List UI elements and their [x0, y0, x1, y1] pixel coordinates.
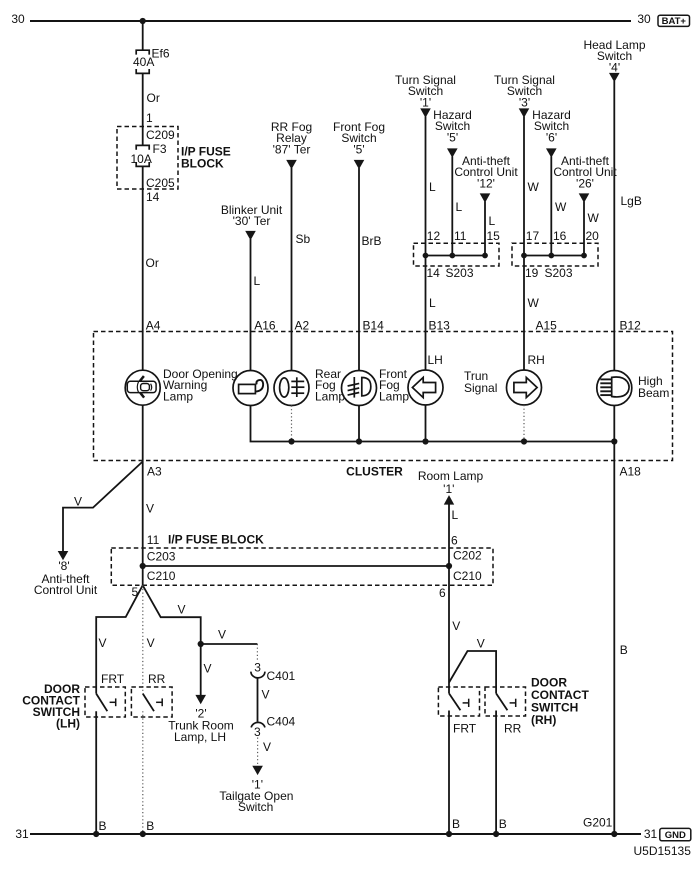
arrow from RR fog relay: [286, 160, 297, 169]
arrow from anti-theft control unit 26: [579, 193, 590, 202]
junction dot high beam on bus: [611, 438, 617, 444]
svg-text:3: 3: [254, 661, 261, 675]
indicator U1 door opening warning lamp: [125, 370, 160, 405]
svg-text:'6': '6': [546, 130, 557, 144]
junction dot front fog on bus: [356, 438, 362, 444]
wire to RR LH switch (dotted): [142, 585, 144, 693]
switch FRT LH: [96, 694, 116, 712]
junction dot on rail at battery feed: [140, 18, 146, 24]
junction dot FRT RH ground: [446, 831, 452, 837]
svg-text:C210: C210: [147, 569, 176, 583]
switch box FRT LH: [85, 687, 125, 717]
svg-text:31: 31: [644, 827, 658, 841]
junction dot pin 12: [423, 253, 429, 259]
svg-text:'5': '5': [447, 130, 458, 144]
svg-text:C404: C404: [267, 714, 296, 728]
wire door lamp A3 down to fuse block: [142, 405, 144, 585]
arrow from hazard switch 6: [546, 148, 557, 157]
svg-text:Control Unit: Control Unit: [34, 583, 98, 597]
svg-text:BLOCK: BLOCK: [181, 157, 224, 171]
label RR Fog Relay '87' Ter: [271, 120, 312, 156]
indicator U5 turn signal LH: [408, 370, 443, 405]
wire to trunk room lamp: [200, 644, 202, 695]
svg-text:30: 30: [637, 12, 651, 26]
connector C401 half: [251, 672, 265, 678]
connector C404 half: [251, 722, 265, 727]
label '1' Tailgate Open Switch: [219, 777, 293, 814]
svg-text:V: V: [218, 628, 226, 642]
wire rail to fuse Ef6: [142, 21, 144, 50]
ground point G201: [611, 831, 617, 837]
svg-text:C401: C401: [267, 669, 296, 683]
svg-text:'87' Ter: '87' Ter: [273, 142, 311, 156]
wire branch to anti-theft '8': [63, 462, 143, 552]
switch box FRT RH: [438, 687, 479, 716]
wire front fog lamp to bus: [358, 406, 360, 442]
svg-text:B14: B14: [363, 319, 385, 333]
wire bus 30 top rail: [30, 20, 631, 22]
svg-text:12: 12: [427, 229, 441, 243]
indicator U3 rear fog lamp: [274, 371, 309, 406]
label DOOR CONTACT SWITCH (RH): [531, 676, 589, 728]
wire trunk branch to tailgate connector: [201, 643, 258, 645]
label Rear Fog Lamp: [315, 367, 345, 403]
svg-text:F3: F3: [153, 142, 167, 156]
svg-text:W: W: [588, 211, 600, 225]
svg-text:B13: B13: [429, 319, 451, 333]
wire RR RH to ground rail: [495, 711, 497, 835]
svg-text:6: 6: [439, 586, 446, 600]
arrow from turn signal switch 1: [420, 108, 431, 117]
svg-text:A16: A16: [254, 319, 276, 333]
svg-text:Switch: Switch: [238, 800, 273, 814]
label '2' Trunk Room Lamp, LH: [168, 707, 234, 745]
svg-text:FRT: FRT: [101, 672, 125, 686]
arrow from front fog switch: [354, 160, 365, 169]
wire high beam through pin A18 to ground rail: [613, 406, 615, 835]
junction dot C202: [446, 563, 452, 569]
BAT+ terminal box: [658, 15, 690, 27]
junction dot pin 11: [449, 253, 455, 259]
wire anti-theft 12 to splice S203: [484, 202, 486, 256]
wire C404 to tailgate switch (dotted): [257, 738, 259, 767]
GND terminal box: [660, 828, 691, 841]
svg-text:15: 15: [487, 229, 501, 243]
arrow from head lamp switch: [609, 73, 620, 82]
svg-text:RR: RR: [504, 722, 522, 736]
svg-text:B: B: [99, 819, 107, 833]
label Blinker Unit '30' Ter: [221, 203, 283, 228]
svg-text:W: W: [528, 180, 540, 194]
wire front fog switch to cluster pin B14: [358, 168, 360, 371]
svg-text:14: 14: [146, 190, 160, 204]
svg-text:(RH): (RH): [531, 713, 556, 727]
svg-text:G201: G201: [583, 816, 613, 830]
label High Beam: [638, 374, 669, 400]
label Trun Signal: [464, 369, 497, 395]
svg-text:'26': '26': [576, 176, 594, 190]
arrow from turn signal switch 3: [519, 108, 530, 117]
junction dot turn RH on bus: [521, 438, 527, 444]
svg-text:V: V: [147, 636, 155, 650]
junction dot pin 20: [581, 253, 587, 259]
wire RR fog relay to cluster pin A2: [291, 168, 293, 371]
svg-text:A3: A3: [147, 465, 162, 479]
junction dot pin 17: [521, 253, 527, 259]
wire turn signal 3 to cluster pin A15: [523, 117, 525, 371]
wire corner down to C401 (dotted): [256, 644, 258, 662]
label 14 S203: [427, 266, 474, 280]
wire FRT RH to ground rail: [448, 711, 450, 835]
svg-text:B: B: [620, 643, 628, 657]
wire fuse block to cluster pin A4: [142, 166, 144, 370]
label 19 S203: [525, 266, 573, 280]
svg-text:'30' Ter: '30' Ter: [233, 214, 271, 228]
junction dot C203: [140, 563, 146, 569]
junction dot RR LH ground: [140, 831, 146, 837]
svg-text:40A: 40A: [133, 55, 154, 69]
svg-text:C202: C202: [453, 549, 482, 563]
junction dot RR RH ground: [493, 831, 499, 837]
svg-text:Lamp: Lamp: [379, 389, 409, 403]
indicator U7 high beam: [597, 371, 632, 406]
wire fuse Ef6 to fuse block: [142, 73, 144, 145]
svg-text:V: V: [263, 740, 271, 754]
wire rear fog lamp to bus (dotted): [291, 406, 293, 442]
splice box S203 left: [414, 243, 500, 266]
wire RR LH to ground rail (dotted): [142, 711, 144, 834]
svg-text:LH: LH: [428, 353, 443, 367]
svg-text:L: L: [489, 214, 496, 228]
svg-text:11: 11: [454, 229, 467, 243]
svg-text:A18: A18: [620, 465, 642, 479]
svg-text:L: L: [429, 180, 436, 194]
wire turn signal 1 to cluster pin B13: [425, 117, 427, 371]
svg-text:19: 19: [525, 266, 539, 280]
wire interior lamp to cluster ground bus: [251, 406, 615, 442]
svg-text:Or: Or: [146, 256, 159, 270]
svg-text:'4': '4': [609, 60, 620, 74]
junction dot pin 16: [548, 253, 554, 259]
junction dot turn LH on bus: [422, 438, 428, 444]
wire bus 31 ground rail: [30, 833, 641, 835]
svg-text:V: V: [146, 502, 154, 516]
label I/P FUSE BLOCK (upper): [181, 145, 231, 171]
svg-text:W: W: [555, 200, 567, 214]
label Front Fog Switch '5': [333, 120, 385, 156]
svg-text:6: 6: [451, 534, 458, 548]
cluster box: [94, 332, 673, 461]
switch box RR RH: [485, 687, 526, 716]
label Anti-theft Control Unit '26': [553, 154, 617, 190]
svg-text:B: B: [499, 817, 507, 831]
svg-text:V: V: [204, 662, 212, 676]
wire hazard switch 6 to splice S203: [550, 157, 552, 256]
svg-text:L: L: [429, 296, 436, 310]
svg-text:C209: C209: [146, 128, 175, 142]
label Front Fog Lamp: [379, 367, 409, 403]
svg-text:16: 16: [553, 229, 567, 243]
arrow to trunk room lamp: [195, 695, 206, 704]
svg-text:'8': '8': [58, 559, 69, 573]
junction dot pin 15: [482, 253, 488, 259]
fuse Ef6 40A: [136, 50, 149, 73]
junction dot FRT LH ground: [93, 831, 99, 837]
svg-text:'12': '12': [477, 176, 495, 190]
arrow to anti-theft control unit '8': [58, 551, 69, 560]
arrow from anti-theft control unit 12: [480, 193, 491, 202]
svg-text:BAT+: BAT+: [662, 16, 687, 27]
svg-text:A2: A2: [295, 319, 310, 333]
svg-text:Or: Or: [147, 91, 160, 105]
svg-text:C203: C203: [147, 550, 176, 564]
svg-text:'1': '1': [420, 95, 431, 109]
svg-text:V: V: [74, 495, 82, 509]
label Head Lamp Switch '4': [583, 38, 645, 74]
svg-text:1: 1: [146, 111, 153, 125]
svg-text:U5D15135: U5D15135: [634, 844, 692, 858]
splice bus S203 left: [426, 255, 486, 257]
svg-text:14: 14: [427, 266, 441, 280]
wire turn RH to bus (dotted): [523, 405, 525, 442]
svg-text:GND: GND: [665, 830, 686, 841]
arrow from blinker unit: [245, 231, 256, 240]
svg-text:C210: C210: [453, 569, 482, 583]
arrow to room lamp (up): [444, 495, 454, 505]
svg-text:L: L: [254, 274, 261, 288]
svg-text:V: V: [178, 603, 186, 617]
svg-text:B12: B12: [620, 319, 642, 333]
splice bus S203 right: [524, 255, 584, 257]
arrow from hazard switch 5: [447, 148, 458, 157]
wire branch to RR RH switch: [449, 651, 496, 693]
label DOOR CONTACT SWITCH (LH): [22, 682, 80, 731]
svg-text:Lamp: Lamp: [163, 389, 193, 403]
svg-text:10A: 10A: [131, 152, 152, 166]
wire blinker unit to cluster pin A16: [250, 239, 252, 371]
wire hazard switch 5 to splice S203: [451, 157, 453, 256]
splice box S203 right: [512, 243, 598, 266]
svg-text:B: B: [146, 819, 154, 833]
svg-text:A4: A4: [146, 319, 161, 333]
svg-text:20: 20: [586, 229, 600, 243]
wire room lamp to door contact FRT RH: [448, 504, 450, 693]
svg-text:S203: S203: [545, 266, 573, 280]
svg-text:C205: C205: [146, 176, 175, 190]
I/P fuse block connector box (lower): [111, 548, 493, 585]
switch box RR LH: [131, 687, 172, 717]
svg-text:'3': '3': [519, 95, 530, 109]
svg-text:30: 30: [11, 12, 25, 26]
label '8' Anti-theft Control Unit: [34, 559, 98, 597]
svg-text:17: 17: [526, 229, 540, 243]
svg-text:A15: A15: [536, 319, 558, 333]
svg-text:Signal: Signal: [464, 381, 497, 395]
label Turn Signal Switch '3': [494, 73, 555, 109]
svg-text:FRT: FRT: [453, 722, 477, 736]
svg-text:V: V: [477, 637, 485, 651]
svg-text:B: B: [452, 817, 460, 831]
svg-text:S203: S203: [446, 266, 474, 280]
svg-text:L: L: [456, 200, 463, 214]
svg-text:V: V: [262, 688, 270, 702]
switch RR RH: [496, 693, 516, 710]
label Hazard Switch '6': [532, 108, 571, 144]
switch RR LH: [143, 694, 162, 712]
indicator U6 turn signal RH: [507, 370, 542, 405]
wire branch to FRT LH switch: [96, 585, 143, 693]
svg-text:RH: RH: [528, 353, 545, 367]
label Door Opening Warning Lamp: [163, 367, 238, 403]
junction dot trunk branch: [198, 641, 204, 647]
svg-text:I/P FUSE BLOCK: I/P FUSE BLOCK: [168, 533, 264, 547]
svg-text:(LH): (LH): [56, 717, 80, 731]
arrow to tailgate open switch: [252, 766, 263, 775]
svg-text:BrB: BrB: [362, 234, 382, 248]
junction dot rear fog on bus: [288, 438, 294, 444]
svg-text:Beam: Beam: [638, 386, 669, 400]
label Room Lamp '1': [418, 469, 484, 496]
svg-text:3: 3: [254, 725, 261, 739]
svg-text:LgB: LgB: [621, 194, 642, 208]
svg-text:Room Lamp: Room Lamp: [418, 469, 484, 483]
wire link C203 to C202: [143, 565, 449, 567]
svg-text:11: 11: [147, 533, 160, 547]
svg-text:Sb: Sb: [296, 232, 311, 246]
svg-text:Lamp: Lamp: [315, 389, 345, 403]
svg-text:'1': '1': [443, 482, 454, 496]
wire head lamp switch to cluster pin B12: [613, 81, 615, 371]
svg-text:L: L: [452, 508, 459, 522]
indicator U4 front fog lamp: [342, 371, 377, 406]
I/P fuse block connector box (upper): [117, 127, 178, 190]
svg-text:V: V: [99, 636, 107, 650]
fuse F3 10A: [136, 145, 149, 166]
label Anti-theft Control Unit '12': [454, 154, 518, 190]
svg-text:Lamp, LH: Lamp, LH: [174, 730, 226, 744]
label Hazard Switch '5': [433, 108, 472, 144]
svg-text:CLUSTER: CLUSTER: [346, 465, 403, 479]
wire branch to trunk room lamp: [143, 585, 201, 644]
svg-text:RR: RR: [148, 672, 166, 686]
wire anti-theft 26 to splice S203: [583, 202, 585, 256]
label Turn Signal Switch '1': [395, 73, 456, 109]
svg-text:W: W: [528, 296, 540, 310]
wire FRT LH to ground rail: [95, 711, 97, 834]
wire C401 to C404: [257, 678, 259, 722]
svg-text:'5': '5': [353, 142, 364, 156]
switch FRT RH: [449, 693, 469, 710]
svg-text:31: 31: [15, 827, 29, 841]
wire turn LH to bus: [425, 405, 427, 442]
svg-text:V: V: [452, 619, 460, 633]
indicator U2 interior lamp: [233, 371, 268, 406]
